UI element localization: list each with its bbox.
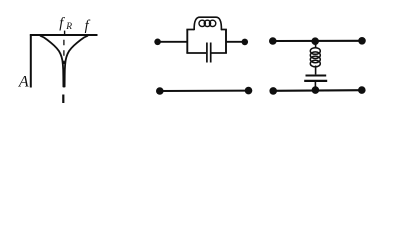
inductor (vertical coil turns)	[310, 48, 320, 55]
svg-text:A: A	[18, 73, 29, 90]
wire tank to right terminal	[226, 41, 245, 43]
inductor L loop turns	[199, 20, 205, 26]
dash below curve tip	[62, 95, 64, 104]
notch response curve right branch	[65, 36, 88, 87]
tick at fR	[64, 31, 66, 36]
stem coil to capacitor	[315, 66, 317, 75]
stem capacitor to bottom wire	[314, 82, 316, 91]
svg-text:R: R	[65, 22, 72, 32]
node dot (top-left terminal)	[269, 37, 277, 45]
node dot (bottom junction)	[312, 86, 320, 94]
capacitor lower plate	[304, 80, 327, 82]
node dot (bottom-left terminal)	[156, 87, 164, 95]
curve tip (merged stroke)	[63, 74, 66, 87]
node dot (top junction)	[311, 37, 319, 45]
inductor L (coil envelope)	[194, 17, 221, 30]
horizontal axis (f axis)	[30, 34, 98, 36]
vertical axis (A axis)	[30, 34, 32, 87]
bottom return wire	[160, 90, 249, 92]
node dot (top-right terminal)	[242, 39, 249, 46]
shunt branch stem from top junction	[315, 41, 317, 48]
node dot (bottom-right terminal)	[358, 86, 366, 94]
dashed fR center line inside notch	[63, 40, 65, 64]
tank top branch wire	[186, 29, 194, 31]
node dot (bottom-right terminal)	[245, 87, 253, 95]
bottom wire	[273, 89, 362, 92]
node dot (bottom-left terminal)	[269, 87, 277, 95]
node dot (top-right terminal)	[358, 37, 366, 45]
wire left terminal to tank	[158, 41, 188, 43]
capacitor upper plate	[306, 74, 327, 76]
tank right side wire	[225, 30, 227, 54]
notch response curve left branch	[41, 36, 64, 87]
tank left side wire	[186, 30, 188, 54]
node dot (top-left terminal)	[154, 39, 161, 46]
top wire	[273, 40, 362, 42]
capacitor C plates	[206, 43, 208, 63]
tank bottom branch wire	[186, 52, 206, 54]
